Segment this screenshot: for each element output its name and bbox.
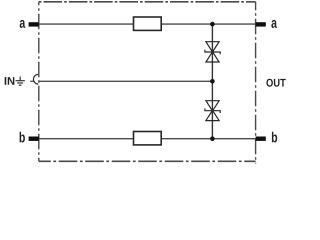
terminal b right (black bar) bbox=[256, 137, 266, 141]
enclosure left border bbox=[38, 2, 40, 162]
wire vertical shunt branch bbox=[211, 24, 213, 139]
label IN bbox=[5, 77, 7, 85]
IN stub wire to arc bbox=[30, 80, 33, 82]
TVS diode D2 (lower bidirectional suppressor) bbox=[205, 101, 220, 121]
junction node bottom bbox=[210, 136, 215, 141]
label OUT bbox=[266, 79, 273, 87]
enclosure right border bbox=[255, 2, 257, 164]
label b right bbox=[272, 132, 277, 143]
label b left bbox=[20, 132, 25, 143]
ground symbol bar 3 bbox=[19, 84, 22, 86]
label a right bbox=[271, 20, 277, 28]
enclosure bottom border (dash-dot) bbox=[39, 160, 256, 162]
resistor R2 (bottom) bbox=[134, 132, 162, 145]
TVS diode D1 (upper bidirectional suppressor) bbox=[205, 42, 220, 62]
wire middle (IN to node) bbox=[39, 80, 213, 82]
junction node middle bbox=[210, 79, 215, 84]
boundary pass-through arc at IN bbox=[33, 74, 38, 84]
wire top (a-a) bbox=[39, 23, 256, 25]
terminal a left (black bar) bbox=[29, 22, 39, 26]
enclosure top border (dash-dot) bbox=[39, 1, 256, 3]
ground symbol bar 1 bbox=[16, 80, 25, 82]
junction node top bbox=[210, 22, 215, 27]
resistor R1 (top) bbox=[134, 17, 162, 30]
label a left bbox=[20, 20, 26, 28]
wire bottom (b-b) bbox=[39, 138, 256, 140]
terminal b left (black bar) bbox=[29, 137, 39, 141]
ground symbol stem bbox=[19, 77, 21, 81]
terminal a right (black bar) bbox=[256, 22, 266, 26]
ground symbol bar 2 bbox=[17, 82, 23, 84]
